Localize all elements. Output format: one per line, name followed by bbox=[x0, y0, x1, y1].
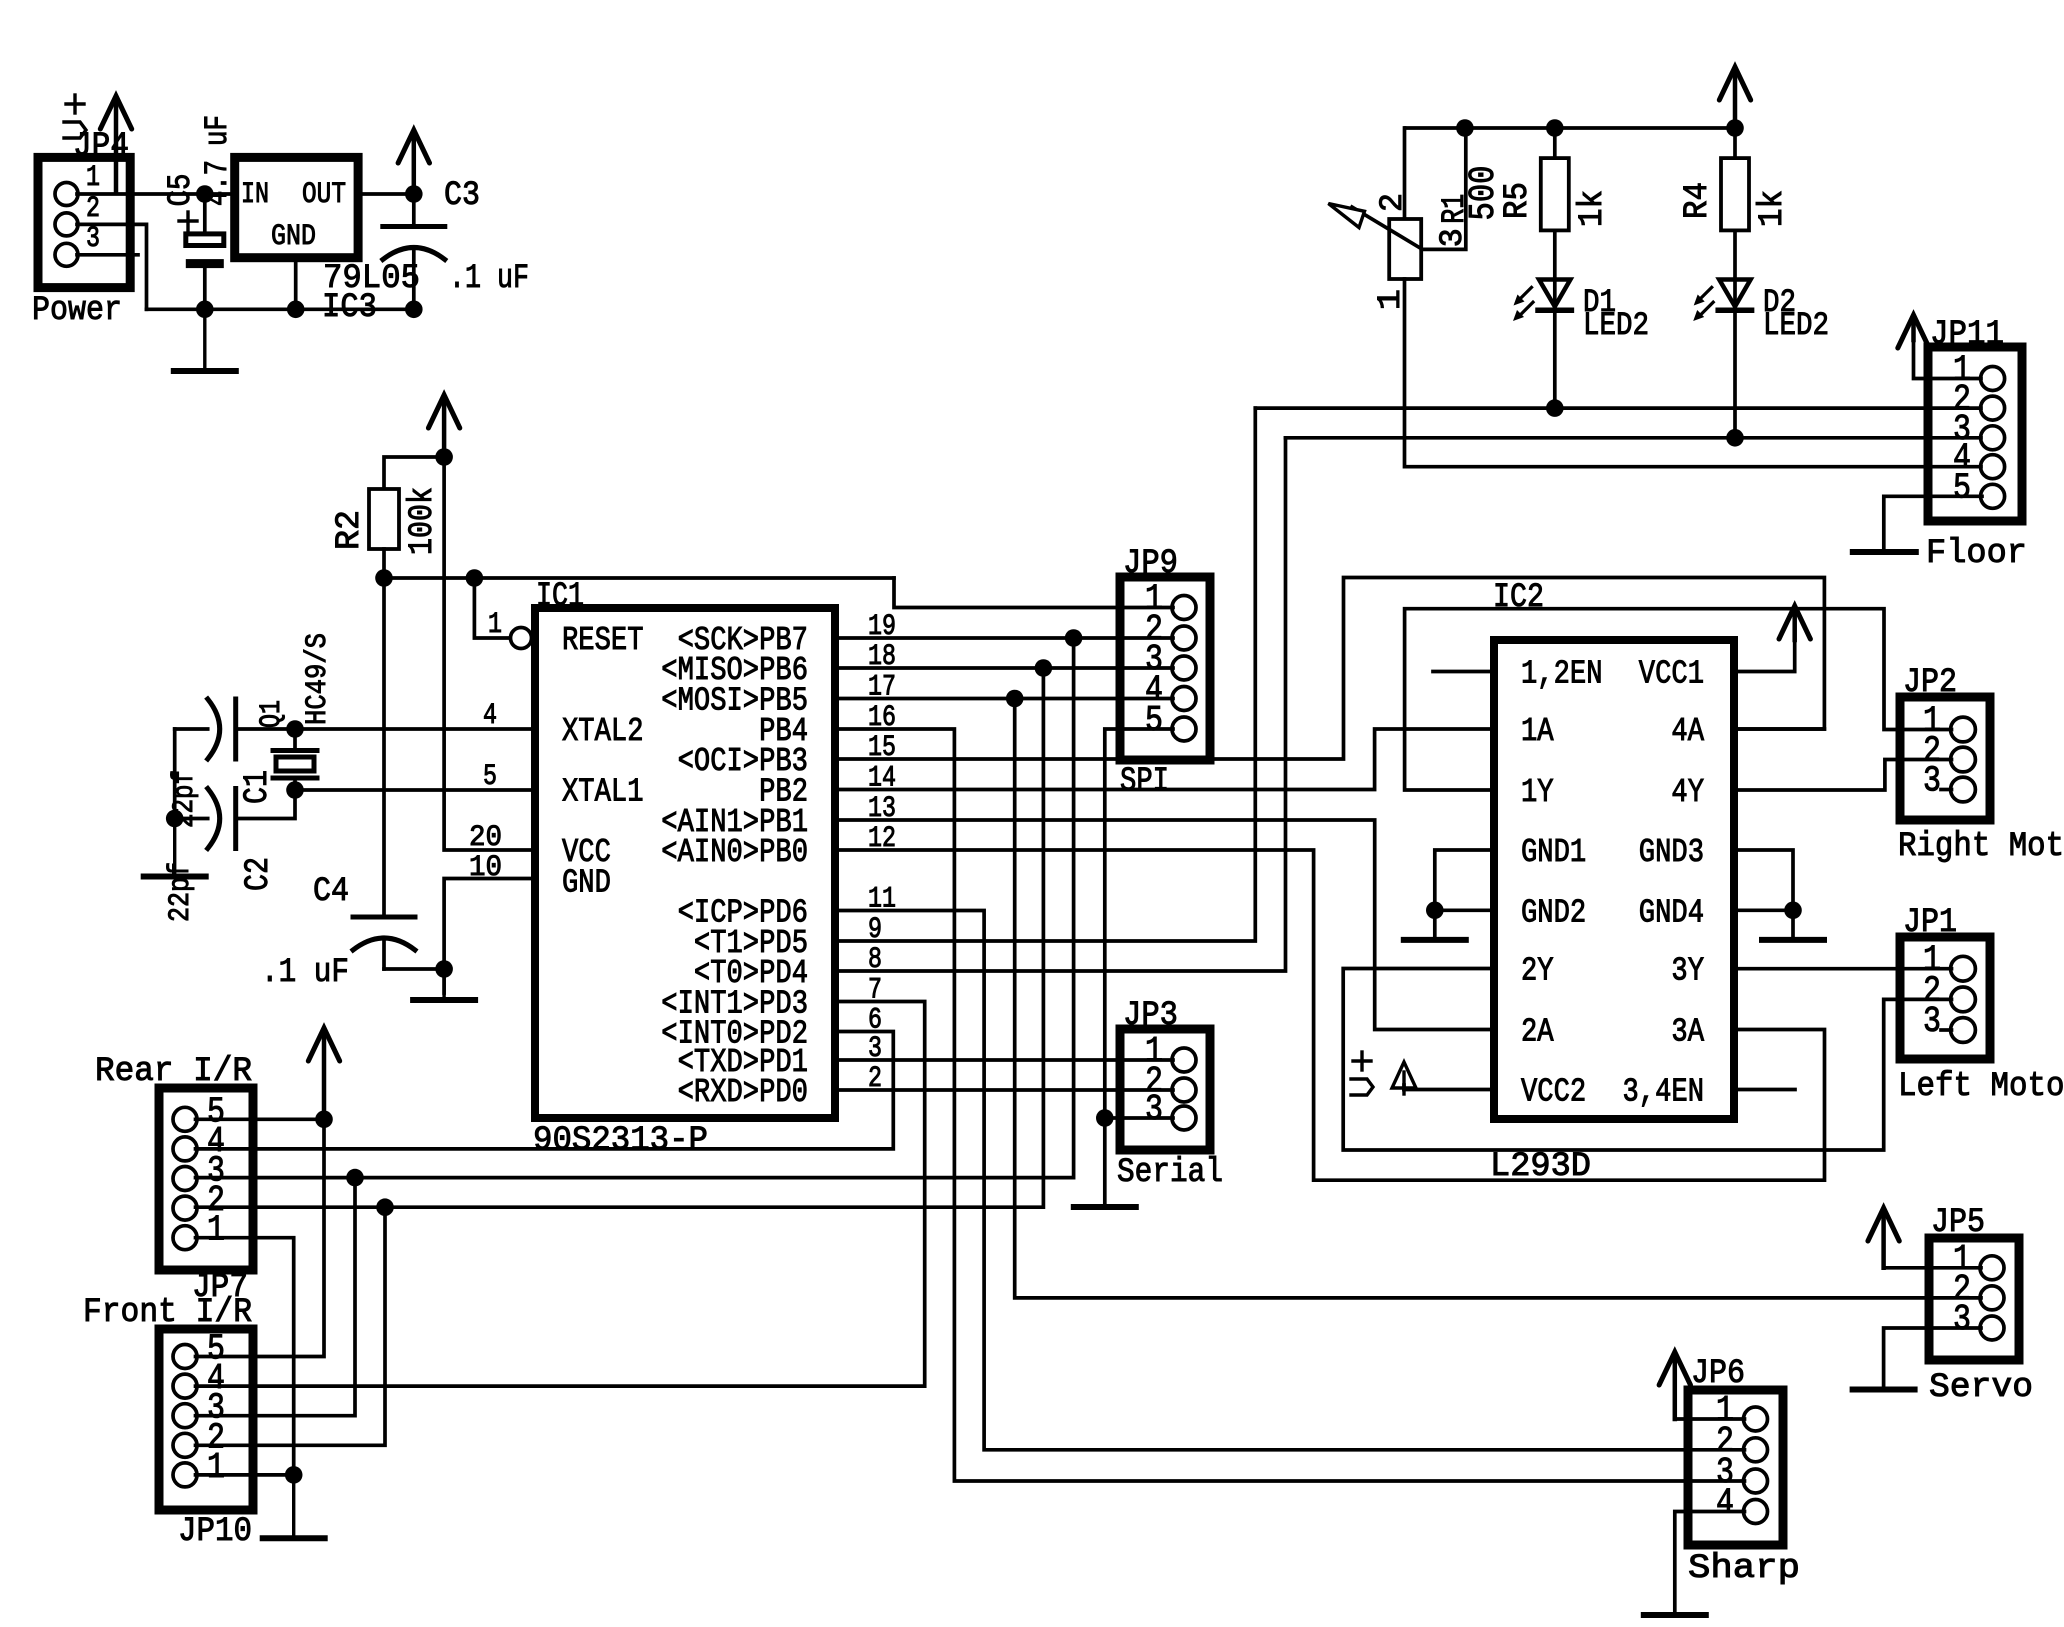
JP6 pin 4 circle bbox=[1744, 1500, 1768, 1524]
IC1 RESET pin bubble bbox=[511, 628, 532, 649]
JP11 pin 1 circle bbox=[1981, 367, 2005, 391]
wire V+ down to IC1 VCC pin 20 bbox=[444, 457, 535, 850]
wire PB3 to L293D 4A bbox=[835, 578, 1824, 760]
svg-text:JP3: JP3 bbox=[1123, 997, 1178, 1035]
JP11 pin 2 circle bbox=[1981, 396, 2005, 420]
JP1 pin 3 circle bbox=[1951, 1018, 1976, 1043]
JP10 pin 2 circle bbox=[173, 1433, 197, 1457]
JP2 pin 1 circle bbox=[1951, 717, 1976, 742]
svg-text:JP9: JP9 bbox=[1123, 545, 1178, 583]
V+ arrow above R2 bbox=[442, 399, 447, 457]
svg-text:GND2: GND2 bbox=[1521, 894, 1586, 931]
JP6 pin 2 circle bbox=[1744, 1438, 1768, 1462]
V+ arrow above C3 bbox=[412, 134, 417, 194]
junction crystal top bbox=[286, 720, 304, 738]
wire Rear pin 1 to ground column bbox=[196, 1238, 294, 1475]
connector JP5 box bbox=[1929, 1238, 2019, 1360]
wire SCK branch to Rear I/R pin 3 bbox=[355, 638, 1074, 1178]
wire 4A stub to riser bbox=[1734, 727, 1824, 731]
svg-text:90S2313-P: 90S2313-P bbox=[533, 1122, 708, 1160]
svg-text:.1 uF: .1 uF bbox=[261, 954, 349, 992]
svg-text:GND: GND bbox=[562, 865, 611, 902]
svg-text:<RXD>PD0: <RXD>PD0 bbox=[678, 1074, 808, 1111]
JP10 pin 1 circle bbox=[173, 1463, 197, 1487]
JP11 pin 4 circle bbox=[1981, 455, 2005, 479]
resistor R5 bottom lead bbox=[1553, 230, 1557, 306]
svg-text:4: 4 bbox=[1716, 1483, 1734, 1524]
IC IC1 90S2313-P body bbox=[535, 608, 835, 1118]
connector JP11 box bbox=[1928, 347, 2022, 521]
junction GND3/GND4 bbox=[1784, 902, 1802, 920]
svg-text:RESET: RESET bbox=[562, 622, 644, 659]
wire JP5 pin 3 to ground bbox=[1884, 1328, 1981, 1390]
svg-text:JP5: JP5 bbox=[1931, 1204, 1985, 1242]
svg-text:100k: 100k bbox=[404, 487, 442, 555]
potentiometer R1 body bbox=[1389, 219, 1421, 279]
wire Rear pin 3 to Front pin 3 bbox=[196, 1178, 356, 1416]
svg-text:JP10: JP10 bbox=[178, 1513, 252, 1551]
svg-text:L293D: L293D bbox=[1490, 1148, 1591, 1186]
junction RESET drop bbox=[466, 569, 484, 587]
svg-text:Power: Power bbox=[32, 292, 122, 330]
svg-text:JP2: JP2 bbox=[1903, 664, 1957, 702]
svg-text:5: 5 bbox=[1953, 467, 1971, 508]
junction Rear pin5 V+ bbox=[315, 1111, 333, 1129]
svg-text:XTAL2: XTAL2 bbox=[562, 713, 644, 750]
ground symbol (IC2 right) bbox=[1762, 937, 1824, 943]
junction R5 top bbox=[1546, 119, 1564, 137]
svg-text:uF: uF bbox=[199, 115, 236, 146]
ground symbol (power section) bbox=[203, 309, 206, 371]
svg-text:1: 1 bbox=[488, 608, 502, 642]
wire MOSI branch to JP5 pin 2 (Servo) bbox=[1015, 699, 1981, 1298]
wire 3,4EN stub (NC) bbox=[1734, 1088, 1795, 1092]
svg-text:JP1: JP1 bbox=[1903, 904, 1957, 942]
junction R2 bottom / C4 branch bbox=[375, 569, 393, 587]
wire C4 bottom to GND node bbox=[384, 967, 444, 971]
junction SCK branch bbox=[1065, 629, 1083, 647]
junction C5 bottom on rail bbox=[196, 301, 214, 319]
wire PB1 to L293D 2A bbox=[835, 820, 1494, 1030]
crystal Q1 body bbox=[276, 757, 314, 771]
wire Rear pin 3 stub bbox=[196, 1176, 356, 1180]
svg-text:<AIN0>PB0: <AIN0>PB0 bbox=[661, 834, 808, 871]
crystal Q1 plates bbox=[273, 748, 317, 753]
svg-text:C2: C2 bbox=[240, 857, 278, 891]
connector JP2 box bbox=[1900, 697, 1990, 820]
junction Rear pin 2 bbox=[376, 1198, 394, 1216]
LED D1 emission arrows bbox=[1518, 287, 1532, 301]
svg-text:Right Motor: Right Motor bbox=[1898, 828, 2064, 866]
LED D2 bbox=[1719, 280, 1750, 307]
resistor R4 body bbox=[1721, 158, 1749, 230]
svg-text:1,2EN: 1,2EN bbox=[1521, 656, 1603, 693]
LED D1 bbox=[1539, 280, 1570, 307]
ground rail wire bbox=[147, 307, 414, 311]
svg-text:LED2: LED2 bbox=[1583, 307, 1649, 344]
wire RESET down to IC1 pin 1 bbox=[474, 578, 510, 638]
wire V+ to JP11 pin 1 bbox=[1914, 340, 1982, 379]
svg-text:2: 2 bbox=[1374, 193, 1411, 212]
power V+ net flag (JP4) bbox=[66, 102, 84, 105]
wire JP6 pin 4 to ground bbox=[1675, 1512, 1745, 1616]
ground symbol (Floor) bbox=[1853, 549, 1916, 555]
V+ arrow at JP6 bbox=[1673, 1356, 1678, 1419]
wire 3Y to JP1 pin 1 bbox=[1734, 967, 1952, 971]
JP1 pin 3 stub (NC) bbox=[1941, 1028, 1952, 1032]
junction D2 on Floor pin3 wire bbox=[1726, 429, 1744, 447]
connector JP4 box bbox=[38, 157, 130, 287]
svg-text:2Y: 2Y bbox=[1521, 953, 1554, 990]
wire XTAL1 (IC1 pin 5) bbox=[295, 788, 535, 792]
svg-text:C1: C1 bbox=[239, 770, 277, 804]
wire 4Y to JP2 pin 2 bbox=[1734, 760, 1952, 791]
capacitor C3 bbox=[412, 194, 416, 227]
wire RESET to JP9 pin 1 bbox=[894, 578, 1173, 608]
wire V+ to JP6 pin 1 bbox=[1675, 1417, 1745, 1421]
crystal Q1 leads bbox=[293, 729, 297, 751]
wire Floor pin 3 net bbox=[1286, 436, 1982, 440]
capacitor C5 leads bbox=[203, 194, 207, 234]
wire VCC1 to V+ arrow bbox=[1734, 640, 1795, 672]
wire Front pin 1 stub bbox=[196, 1473, 294, 1477]
wire JP4 pin2 down to ground rail bbox=[77, 224, 147, 309]
svg-text:IN: IN bbox=[241, 178, 269, 212]
wire PD6 to JP6 pin 2 (Sharp) bbox=[835, 911, 1745, 1450]
svg-text:GND: GND bbox=[271, 220, 316, 254]
svg-text:4A: 4A bbox=[1671, 713, 1704, 750]
wire MISO branch to Rear I/R pin 2 bbox=[385, 668, 1043, 1207]
JP7 pin 1 circle bbox=[173, 1226, 197, 1250]
svg-text:22pf: 22pf bbox=[168, 770, 202, 828]
svg-text:Servo: Servo bbox=[1929, 1369, 2033, 1407]
svg-text:3A: 3A bbox=[1671, 1014, 1704, 1051]
JP9 pin 4 circle bbox=[1172, 687, 1196, 711]
ground symbol (IR connectors) bbox=[292, 1475, 295, 1538]
wire JP4 pin3 stub (NC) bbox=[77, 253, 138, 257]
connector JP7 box bbox=[159, 1088, 253, 1270]
svg-text:GND1: GND1 bbox=[1521, 834, 1586, 871]
V+ arrow above R4/R5 rail bbox=[1733, 71, 1738, 128]
wire PB7/SCK to JP9 pin 2 bbox=[835, 636, 1173, 640]
LED D2 cathode wire to Floor pin 3 net bbox=[1733, 310, 1737, 438]
capacitor C2 bbox=[233, 789, 238, 849]
wire Floor pin 2 net bbox=[1255, 406, 1981, 410]
junction MISO branch bbox=[1035, 659, 1053, 677]
capacitor C1 right wire bbox=[236, 727, 295, 731]
capacitor C1 bbox=[233, 699, 238, 759]
resistor R2 body bbox=[369, 489, 399, 549]
ground symbol (crystal caps) bbox=[173, 819, 176, 877]
connector JP1 box bbox=[1900, 937, 1990, 1059]
JP6 pin 1 circle bbox=[1744, 1407, 1768, 1431]
svg-text:C4: C4 bbox=[313, 873, 349, 911]
V+ arrow at VCC1 bbox=[1792, 610, 1797, 640]
junction D1 on Floor pin2 wire bbox=[1546, 399, 1564, 417]
junction Front pin 1 bbox=[285, 1466, 303, 1484]
JP6 pin 3 circle bbox=[1744, 1469, 1768, 1493]
power V+ arrow above JP4 bbox=[114, 100, 119, 193]
wire crystal bottom to C2 bbox=[236, 790, 295, 819]
svg-text:4: 4 bbox=[483, 699, 497, 733]
wire caps common to ground bbox=[173, 729, 177, 819]
svg-text:HC49/S: HC49/S bbox=[301, 633, 335, 725]
wire PD1/TXD to JP3 pin 1 bbox=[835, 1058, 1173, 1062]
wire R2 bottom down to C4 bbox=[382, 578, 386, 917]
svg-text:Floor: Floor bbox=[1926, 535, 2027, 573]
V+ arrow at JP11 pin 1 bbox=[1911, 319, 1916, 340]
wire GND1 to ground bbox=[1435, 850, 1494, 940]
svg-text:JP4: JP4 bbox=[73, 128, 129, 166]
junction C5 top bbox=[196, 185, 214, 203]
svg-text:Sharp: Sharp bbox=[1688, 1550, 1800, 1588]
svg-text:R2: R2 bbox=[331, 510, 369, 550]
wire PD0/RXD to JP3 pin 2 bbox=[835, 1088, 1173, 1092]
wire PB6/MISO to JP9 pin 3 bbox=[835, 666, 1173, 670]
svg-text:VCC2: VCC2 bbox=[1521, 1074, 1586, 1111]
svg-text:1A: 1A bbox=[1521, 713, 1554, 750]
JP10 pin 3 circle bbox=[173, 1404, 197, 1428]
wire 2Y to JP1 pin 2 (via bottom) bbox=[1343, 969, 1951, 1151]
resistor R5 top lead bbox=[1553, 128, 1557, 158]
wire PD3 to Front I/R pin 4 bbox=[196, 1002, 925, 1387]
V+ arrow above Rear I/R bbox=[322, 1032, 327, 1119]
connector JP6 box bbox=[1688, 1390, 1783, 1545]
wire PB0 to L293D 3A bbox=[835, 850, 1825, 1180]
wire JP4 pin1 / C5+ / 79L05 IN (net V+) bbox=[77, 192, 235, 196]
JP7 pin 5 circle bbox=[173, 1107, 197, 1131]
JP9 pin 2 circle bbox=[1172, 626, 1196, 650]
JP5 pin 3 circle bbox=[1980, 1316, 2004, 1340]
svg-text:JP6: JP6 bbox=[1691, 1355, 1745, 1393]
svg-text:IC1: IC1 bbox=[536, 578, 584, 616]
wire JP3 pin 3 stub to ground column bbox=[1105, 1116, 1173, 1120]
JP9 pin 5 circle bbox=[1172, 717, 1196, 741]
junction 79L05 GND on rail bbox=[287, 301, 305, 319]
svg-text:1Y: 1Y bbox=[1521, 774, 1554, 811]
wire PD5 to Floor LED D1 node bbox=[835, 408, 1255, 941]
svg-text:3Y: 3Y bbox=[1671, 953, 1704, 990]
svg-text:Serial: Serial bbox=[1117, 1154, 1223, 1192]
wire top rail (V+) pot/R5/R4 bbox=[1406, 126, 1735, 130]
capacitor C1 left wire bbox=[175, 727, 208, 731]
svg-text:3: 3 bbox=[1923, 761, 1941, 802]
JP11 pin 3 circle bbox=[1981, 426, 2005, 450]
resistor R4 bottom lead bbox=[1733, 230, 1737, 306]
potentiometer R1 wiper arrow bbox=[1352, 207, 1421, 249]
JP2 pin 2 circle bbox=[1951, 747, 1976, 772]
JP10 pin 5 circle bbox=[173, 1345, 197, 1369]
resistor R4 top lead bbox=[1733, 128, 1737, 158]
svg-text:.1 uF: .1 uF bbox=[449, 260, 529, 298]
resistor R2 top lead bbox=[384, 457, 444, 489]
wire RESET net horizontal bbox=[384, 576, 894, 580]
junction R4 top bbox=[1726, 119, 1744, 137]
JP9 pin 3 circle bbox=[1172, 656, 1196, 680]
JP5 pin 1 circle bbox=[1980, 1256, 2004, 1280]
JP3 pin 1 circle bbox=[1172, 1048, 1196, 1072]
ground symbol (IC2 left) bbox=[1404, 937, 1466, 943]
wire Rear pin 5 to V+ bbox=[196, 1117, 325, 1121]
JP2 pin 3 circle bbox=[1951, 777, 1976, 802]
ground symbol (SPI/serial) bbox=[1074, 1204, 1136, 1210]
wire pot R1 pin 2 riser bbox=[1403, 128, 1407, 219]
capacitor C5 plates (electrolytic) bbox=[186, 234, 224, 246]
junction C3 top bbox=[405, 185, 423, 203]
junction R2 top to V+ bbox=[435, 448, 453, 466]
svg-text:C5: C5 bbox=[162, 174, 199, 207]
ground symbol (Sharp) bbox=[1644, 1612, 1706, 1618]
svg-text:500: 500 bbox=[1463, 166, 1504, 221]
svg-text:4Y: 4Y bbox=[1671, 774, 1704, 811]
capacitor C2 left wire bbox=[175, 817, 208, 821]
svg-text:XTAL1: XTAL1 bbox=[562, 774, 644, 811]
svg-text:5: 5 bbox=[483, 760, 497, 794]
wire XTAL2 (IC1 pin 4) bbox=[295, 727, 535, 731]
svg-text:1k: 1k bbox=[1574, 190, 1612, 227]
svg-text:GND3: GND3 bbox=[1639, 834, 1704, 871]
wire PB4 to JP6 pin 3 (Sharp) bbox=[835, 729, 1745, 1481]
ground symbol (Servo) bbox=[1853, 1387, 1915, 1393]
junction C4/GND bbox=[435, 960, 453, 978]
JP7 pin 4 circle bbox=[173, 1137, 197, 1161]
JP7 pin 3 circle bbox=[173, 1167, 197, 1191]
wire 79L05 GND down to rail bbox=[294, 258, 298, 310]
svg-text:3,4EN: 3,4EN bbox=[1623, 1074, 1705, 1111]
svg-text:JP11: JP11 bbox=[1930, 316, 2004, 354]
capacitor C4 bbox=[353, 915, 415, 920]
wire GND3 to ground bbox=[1734, 850, 1793, 940]
JP2 pin 3 stub (NC) bbox=[1941, 788, 1952, 792]
svg-text:C3: C3 bbox=[444, 177, 480, 215]
JP4 pin 3 circle bbox=[55, 243, 78, 266]
ground symbol (IC1/C4) bbox=[442, 969, 445, 1000]
wire V+ to VCC2 bbox=[1404, 1088, 1494, 1092]
junction JP3 pin3 ground bbox=[1096, 1109, 1114, 1127]
JP1 pin 2 circle bbox=[1951, 987, 1976, 1012]
V+ small arrow at VCC2 bbox=[1392, 1062, 1416, 1088]
resistor R2 bottom lead / RESET net bbox=[382, 549, 386, 578]
svg-text:3: 3 bbox=[1434, 228, 1471, 247]
junction GND1/GND2 bbox=[1426, 902, 1444, 920]
JP9 pin 1 circle bbox=[1172, 596, 1196, 620]
V+ arrow at JP5 bbox=[1881, 1212, 1886, 1268]
svg-text:SPI: SPI bbox=[1120, 763, 1169, 801]
wire PB2 to L293D 1A bbox=[835, 729, 1494, 790]
LED D1 cathode wire to Floor pin 2 net bbox=[1553, 310, 1557, 408]
svg-text:LED2: LED2 bbox=[1763, 307, 1829, 344]
wire JP11 pin 5 to ground bbox=[1884, 496, 1982, 552]
wire GND4 stub bbox=[1734, 908, 1793, 912]
svg-text:1k: 1k bbox=[1754, 190, 1792, 227]
JP1 pin 1 circle bbox=[1951, 956, 1976, 981]
JP4 pin 1 circle bbox=[55, 183, 78, 206]
svg-text:Left Motor: Left Motor bbox=[1898, 1068, 2064, 1106]
label C5 polarity + bbox=[179, 219, 197, 222]
wire pot R1 pin 1 to Floor pin 4 bbox=[1405, 279, 1982, 467]
JP5 pin 2 circle bbox=[1980, 1286, 2004, 1310]
junction C3 bottom on rail bbox=[405, 301, 423, 319]
wire Rear pin 2 to Front pin 2 bbox=[196, 1207, 386, 1445]
wire 1,2EN stub (NC) bbox=[1433, 670, 1494, 674]
svg-text:R4: R4 bbox=[1679, 182, 1717, 219]
junction pot wiper riser bbox=[1456, 119, 1474, 137]
wire V+ to JP5 pin 1 bbox=[1884, 1266, 1981, 1270]
svg-text:3: 3 bbox=[1145, 1089, 1163, 1130]
connector JP10 box bbox=[159, 1329, 253, 1510]
JP7 pin 2 circle bbox=[173, 1196, 197, 1220]
JP4 pin 2 circle bbox=[55, 213, 78, 236]
JP10 pin 4 circle bbox=[173, 1374, 197, 1398]
svg-text:IC2: IC2 bbox=[1493, 579, 1544, 617]
svg-text:VCC1: VCC1 bbox=[1639, 656, 1704, 693]
junction Rear pin 3 bbox=[346, 1169, 364, 1187]
wire Rear pin 2 stub bbox=[196, 1205, 386, 1209]
IC IC2 L293D body bbox=[1494, 640, 1734, 1119]
wire PD4 to Floor LED D2 node bbox=[835, 438, 1286, 971]
svg-text:10: 10 bbox=[469, 851, 502, 885]
resistor R5 body bbox=[1541, 158, 1569, 230]
wire 79L05 OUT to C3 (net VCC) bbox=[358, 192, 414, 196]
svg-text:20: 20 bbox=[469, 821, 502, 855]
wire V+ down to Front pin 5 bbox=[196, 1119, 325, 1356]
V+ net flag at VCC2 bbox=[1353, 1059, 1371, 1062]
wire JP9 pin 5 to serial ground bbox=[1105, 729, 1173, 1207]
wire PB5/MOSI to JP9 pin 4 bbox=[835, 697, 1173, 701]
wire PD2 to Rear I/R pin 4 bbox=[196, 1032, 894, 1149]
svg-text:2: 2 bbox=[86, 192, 100, 226]
svg-text:2A: 2A bbox=[1521, 1014, 1554, 1051]
connector JP9 box bbox=[1120, 577, 1210, 760]
svg-text:3: 3 bbox=[1953, 1299, 1971, 1340]
wire pot wiper to top rail bbox=[1421, 128, 1466, 249]
wire GND2 stub bbox=[1435, 908, 1494, 912]
JP11 pin 5 circle bbox=[1981, 484, 2005, 508]
JP3 pin 2 circle bbox=[1172, 1078, 1196, 1102]
svg-text:3: 3 bbox=[86, 222, 100, 256]
svg-text:OUT: OUT bbox=[302, 178, 346, 212]
svg-text:1: 1 bbox=[207, 1447, 225, 1488]
wire 1Y to JP2 pin 1 (via top) bbox=[1405, 609, 1952, 790]
junction crystal bottom bbox=[286, 781, 304, 799]
wire IC1 GND pin 10 down bbox=[444, 879, 535, 994]
regulator IC3 79L05 box bbox=[235, 157, 358, 257]
svg-text:3: 3 bbox=[1923, 1001, 1941, 1042]
svg-text:GND4: GND4 bbox=[1639, 894, 1704, 931]
svg-text:1: 1 bbox=[86, 161, 100, 195]
junction MOSI branch bbox=[1006, 690, 1024, 708]
svg-text:Q1: Q1 bbox=[255, 700, 289, 728]
JP3 pin 3 circle bbox=[1172, 1106, 1196, 1130]
connector JP3 box bbox=[1120, 1029, 1210, 1150]
svg-text:R5: R5 bbox=[1499, 182, 1537, 219]
LED D2 emission arrows bbox=[1698, 287, 1712, 301]
junction C2 to ground rail bbox=[166, 810, 184, 828]
svg-text:5: 5 bbox=[1145, 700, 1163, 741]
svg-text:22pf: 22pf bbox=[164, 862, 198, 922]
svg-text:1: 1 bbox=[207, 1210, 225, 1251]
